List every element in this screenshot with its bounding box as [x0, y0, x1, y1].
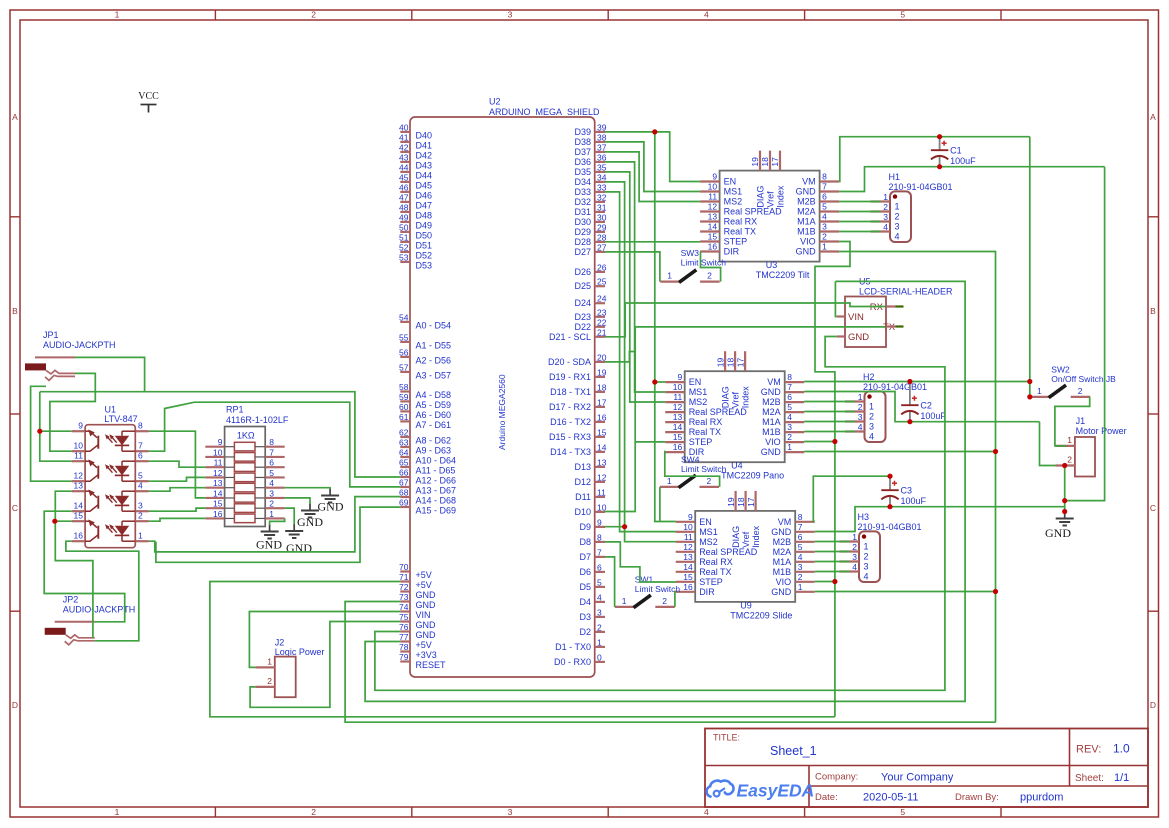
- svg-text:29: 29: [597, 222, 607, 232]
- svg-text:Arduino MEGA2560: Arduino MEGA2560: [497, 374, 507, 450]
- wire RP1 1 to GND c: [270, 518, 285, 525]
- svg-text:MS2: MS2: [699, 537, 718, 547]
- svg-text:7: 7: [269, 447, 274, 457]
- svg-text:3: 3: [269, 488, 274, 498]
- svg-text:D6: D6: [579, 567, 591, 577]
- svg-text:2: 2: [869, 412, 874, 422]
- wire GND75 to J2 pin2: [250, 622, 400, 708]
- svg-text:4: 4: [597, 592, 602, 602]
- wire U4 DIR to SW4 pin2: [665, 452, 720, 487]
- svg-text:62: 62: [399, 428, 409, 438]
- wire GND bus bottom: [345, 602, 995, 723]
- svg-text:23: 23: [597, 307, 607, 317]
- svg-text:1: 1: [787, 442, 792, 452]
- wire U9 M2B to H3: [815, 541, 850, 543]
- svg-text:19: 19: [726, 497, 736, 507]
- svg-text:11: 11: [214, 458, 223, 468]
- svg-text:SW1: SW1: [635, 575, 654, 585]
- wire U9 M1B to H3: [815, 571, 850, 573]
- svg-text:D13: D13: [574, 462, 591, 472]
- svg-text:12: 12: [683, 542, 693, 552]
- svg-text:12: 12: [708, 202, 718, 212]
- svg-text:75: 75: [399, 612, 409, 622]
- svg-text:2: 2: [597, 622, 602, 632]
- svg-text:11: 11: [684, 532, 693, 542]
- svg-text:1: 1: [869, 402, 874, 412]
- svg-text:RESET: RESET: [416, 660, 447, 670]
- svg-text:13: 13: [597, 457, 607, 467]
- wire U9 GND1 to bus: [815, 591, 996, 593]
- svg-text:D27: D27: [574, 247, 591, 257]
- svg-text:33: 33: [597, 182, 607, 192]
- svg-text:A: A: [1150, 112, 1156, 122]
- svg-text:D35: D35: [574, 167, 591, 177]
- svg-text:+3V3: +3V3: [416, 650, 437, 660]
- svg-text:D51: D51: [416, 240, 433, 250]
- svg-text:7: 7: [787, 382, 792, 392]
- wire U3 GND1 to GND bus: [839, 252, 995, 723]
- svg-text:D31: D31: [574, 207, 591, 217]
- svg-text:74: 74: [399, 602, 409, 612]
- wire D7 to SW1 pin1: [605, 557, 615, 607]
- svg-text:Limit Switch: Limit Switch: [635, 584, 681, 594]
- svg-text:Real RX: Real RX: [699, 557, 733, 567]
- svg-text:EN: EN: [699, 517, 712, 527]
- svg-text:D53: D53: [416, 260, 433, 270]
- IC U4 TMC2209 Pano: [685, 371, 785, 462]
- svg-text:6: 6: [822, 192, 827, 202]
- svg-text:D47: D47: [416, 200, 433, 210]
- svg-text:3: 3: [822, 222, 827, 232]
- svg-text:VIN: VIN: [416, 610, 431, 620]
- svg-text:1: 1: [269, 509, 274, 519]
- svg-text:DIR: DIR: [699, 587, 715, 597]
- svg-text:12: 12: [74, 471, 84, 481]
- svg-text:2: 2: [864, 552, 869, 562]
- svg-text:VIO: VIO: [800, 237, 816, 247]
- svg-text:DIAG: DIAG: [731, 526, 741, 548]
- svg-text:C3: C3: [901, 486, 913, 496]
- svg-text:8: 8: [138, 421, 143, 431]
- wire VIO bus bottom to +5V pin71: [210, 582, 835, 717]
- svg-text:2: 2: [852, 542, 857, 552]
- wire D8 jog to U9 STEP: [605, 542, 676, 582]
- svg-text:8: 8: [269, 437, 274, 447]
- svg-text:40: 40: [399, 122, 409, 132]
- svg-text:AUDIO-JACKPTH: AUDIO-JACKPTH: [43, 340, 116, 350]
- svg-text:U1: U1: [105, 405, 117, 415]
- svg-text:H2: H2: [863, 372, 875, 382]
- svg-text:3: 3: [597, 607, 602, 617]
- svg-text:D16 - TX2: D16 - TX2: [550, 417, 591, 427]
- wire U9 M1A to H3: [815, 561, 850, 563]
- svg-text:D43: D43: [416, 160, 433, 170]
- svg-text:D22: D22: [574, 322, 591, 332]
- svg-text:3: 3: [138, 501, 143, 511]
- svg-text:8: 8: [597, 532, 602, 542]
- wire U4 M2A to H2: [804, 411, 855, 413]
- svg-text:1: 1: [895, 202, 900, 212]
- svg-text:A10 - D64: A10 - D64: [416, 456, 457, 466]
- svg-text:46: 46: [399, 182, 409, 192]
- svg-text:15: 15: [597, 427, 607, 437]
- svg-text:M2A: M2A: [762, 407, 781, 417]
- svg-text:11: 11: [673, 392, 682, 402]
- svg-text:4: 4: [798, 552, 803, 562]
- wire VIN74 to J2 pin1: [249, 612, 400, 668]
- svg-text:2: 2: [798, 572, 803, 582]
- svg-text:3: 3: [858, 412, 863, 422]
- svg-text:D15 - RX3: D15 - RX3: [549, 432, 591, 442]
- svg-text:D: D: [1150, 700, 1156, 710]
- svg-text:10: 10: [708, 182, 718, 192]
- svg-text:D20 - SDA: D20 - SDA: [548, 357, 591, 367]
- wire U9 VIO to bus: [815, 581, 835, 583]
- svg-text:D42: D42: [416, 150, 433, 160]
- svg-text:21: 21: [597, 327, 607, 337]
- svg-text:VCC: VCC: [138, 91, 159, 102]
- svg-text:43: 43: [399, 152, 409, 162]
- svg-text:+5V: +5V: [416, 570, 432, 580]
- svg-text:4: 4: [704, 10, 709, 20]
- wire U4 M2B to H2: [804, 401, 855, 403]
- svg-text:D49: D49: [416, 220, 433, 230]
- svg-text:16: 16: [213, 509, 223, 519]
- capacitor C3 100uF: [889, 476, 891, 490]
- svg-text:D29: D29: [574, 227, 591, 237]
- svg-text:J2: J2: [275, 637, 285, 647]
- svg-text:A11 - D65: A11 - D65: [416, 466, 456, 476]
- wire C2 bottom to J1 pin2: [1040, 422, 1056, 466]
- wire U4 GND1 to GND bus: [804, 451, 995, 453]
- wire J1 pin2 junction down: [1064, 466, 1066, 512]
- svg-text:18: 18: [760, 157, 770, 167]
- svg-text:1: 1: [115, 807, 120, 817]
- title block: [705, 729, 1148, 808]
- wire U1 pin16 to JP2 ring: [66, 541, 139, 641]
- svg-text:U3: U3: [766, 260, 778, 270]
- svg-text:GND: GND: [416, 600, 437, 610]
- svg-text:2: 2: [707, 271, 712, 281]
- svg-text:24: 24: [597, 294, 607, 304]
- wire U1 pin1 to A14: [149, 497, 401, 552]
- svg-text:57: 57: [399, 362, 409, 372]
- svg-text:U9: U9: [740, 601, 752, 611]
- svg-text:70: 70: [399, 562, 409, 572]
- svg-text:3: 3: [508, 10, 513, 20]
- wire U1 pin4 to RP1 13: [149, 488, 206, 492]
- svg-text:34: 34: [597, 172, 607, 182]
- svg-text:A0 - D54: A0 - D54: [416, 320, 452, 330]
- svg-text:J1: J1: [1076, 416, 1086, 426]
- svg-text:A13 - D67: A13 - D67: [416, 486, 457, 496]
- svg-text:RP1: RP1: [226, 405, 244, 415]
- svg-text:11: 11: [708, 192, 717, 202]
- svg-text:ARDUINO_MEGA_SHIELD: ARDUINO_MEGA_SHIELD: [489, 107, 600, 117]
- svg-text:1/1: 1/1: [1114, 772, 1129, 784]
- svg-text:D18 - TX1: D18 - TX1: [550, 387, 591, 397]
- svg-text:DIR: DIR: [724, 247, 740, 257]
- wire JP1 net down to U1: [40, 392, 72, 462]
- svg-text:16: 16: [708, 242, 718, 252]
- svg-text:M1B: M1B: [773, 567, 792, 577]
- svg-text:39: 39: [597, 122, 607, 132]
- wire D36 to U4 MS1: [605, 162, 665, 392]
- svg-text:18: 18: [736, 497, 746, 507]
- svg-text:A5 - D59: A5 - D59: [416, 400, 452, 410]
- svg-text:VM: VM: [778, 517, 792, 527]
- wire TX bus to U4 STEP: [635, 441, 665, 443]
- svg-text:6: 6: [597, 562, 602, 572]
- svg-text:72: 72: [399, 582, 409, 592]
- svg-text:Logic Power: Logic Power: [275, 647, 325, 657]
- svg-text:27: 27: [597, 242, 607, 252]
- svg-text:49: 49: [399, 212, 409, 222]
- svg-text:67: 67: [399, 478, 409, 488]
- svg-text:2: 2: [787, 432, 792, 442]
- svg-text:Sheet_1: Sheet_1: [770, 744, 817, 758]
- wire U1 pin2 to RP1 16: [149, 518, 206, 521]
- svg-text:TMC2209 Pano: TMC2209 Pano: [721, 471, 784, 481]
- wire U1 pin9 branch: [40, 430, 72, 432]
- svg-text:EN: EN: [689, 377, 702, 387]
- svg-text:63: 63: [399, 438, 409, 448]
- wire C1 bottom rail down: [1065, 167, 1105, 501]
- svg-text:MS1: MS1: [699, 527, 718, 537]
- wire D39 to junction: [605, 132, 700, 182]
- svg-text:19: 19: [597, 367, 607, 377]
- svg-text:1: 1: [138, 531, 143, 541]
- svg-text:2: 2: [858, 402, 863, 412]
- svg-text:50: 50: [399, 222, 409, 232]
- svg-text:D11: D11: [575, 492, 591, 502]
- svg-text:ppurdom: ppurdom: [1020, 792, 1063, 804]
- svg-text:Drawn By:: Drawn By:: [955, 792, 999, 803]
- svg-text:Vref: Vref: [741, 531, 751, 548]
- svg-text:3: 3: [883, 212, 888, 222]
- svg-text:42: 42: [399, 142, 409, 152]
- svg-text:77: 77: [399, 632, 409, 642]
- svg-text:6: 6: [138, 451, 143, 461]
- svg-text:64: 64: [399, 448, 409, 458]
- svg-text:2020-05-11: 2020-05-11: [863, 792, 918, 804]
- svg-text:7: 7: [798, 522, 803, 532]
- svg-text:On/Off Switch JB: On/Off Switch JB: [1051, 374, 1116, 384]
- wire U3 M1A to H1: [839, 221, 880, 223]
- svg-text:2: 2: [1078, 386, 1083, 396]
- svg-text:GND: GND: [416, 620, 437, 630]
- svg-text:1: 1: [597, 637, 602, 647]
- svg-text:3: 3: [895, 222, 900, 232]
- svg-text:2: 2: [269, 499, 274, 509]
- svg-text:1: 1: [822, 242, 827, 252]
- svg-text:16: 16: [74, 531, 84, 541]
- svg-text:60: 60: [399, 402, 409, 412]
- svg-text:REV:: REV:: [1076, 744, 1101, 756]
- wire U5 VIN from +5V rail: [835, 281, 837, 316]
- svg-text:28: 28: [597, 232, 607, 242]
- svg-text:13: 13: [213, 478, 223, 488]
- svg-text:D36: D36: [574, 157, 591, 167]
- svg-text:1: 1: [667, 476, 672, 486]
- svg-text:M1B: M1B: [762, 427, 781, 437]
- svg-text:11: 11: [74, 451, 83, 461]
- svg-text:9: 9: [78, 421, 83, 431]
- IC U9 TMC2209 Slide: [695, 511, 795, 602]
- wire JP1 ring to U1 pin12: [31, 386, 72, 481]
- svg-text:D4: D4: [579, 597, 591, 607]
- svg-text:Real TX: Real TX: [689, 427, 721, 437]
- svg-text:4: 4: [787, 412, 792, 422]
- svg-text:Company:: Company:: [815, 772, 858, 783]
- svg-text:SW2: SW2: [1051, 365, 1070, 375]
- svg-text:0: 0: [597, 652, 602, 662]
- svg-text:D26: D26: [574, 267, 591, 277]
- capacitor C2 100uF: [909, 382, 911, 406]
- svg-text:TITLE:: TITLE:: [713, 733, 740, 743]
- svg-text:10: 10: [683, 522, 693, 532]
- svg-text:JP2: JP2: [63, 594, 79, 604]
- svg-text:GND: GND: [416, 630, 437, 640]
- svg-text:17: 17: [597, 397, 607, 407]
- svg-text:MS2: MS2: [724, 197, 743, 207]
- svg-text:37: 37: [597, 142, 607, 152]
- wire D37 to U3 MS2: [605, 152, 700, 202]
- svg-text:D7: D7: [579, 552, 591, 562]
- svg-text:C1: C1: [950, 146, 962, 156]
- svg-text:1: 1: [1037, 386, 1042, 396]
- svg-text:68: 68: [399, 488, 409, 498]
- svg-text:4: 4: [269, 478, 274, 488]
- svg-text:STEP: STEP: [724, 237, 748, 247]
- svg-text:TMC2209 Tilt: TMC2209 Tilt: [756, 270, 810, 280]
- svg-text:18: 18: [597, 382, 607, 392]
- svg-text:2: 2: [895, 212, 900, 222]
- svg-text:100uF: 100uF: [901, 496, 927, 506]
- svg-text:9: 9: [712, 172, 717, 182]
- svg-text:7: 7: [597, 547, 602, 557]
- wire C3 bottom to GND: [890, 506, 1065, 508]
- svg-text:2: 2: [138, 511, 143, 521]
- svg-text:35: 35: [597, 162, 607, 172]
- svg-text:6: 6: [787, 392, 792, 402]
- svg-text:65: 65: [399, 458, 409, 468]
- wire U3 VM up to C1 top rail: [839, 137, 1030, 182]
- svg-text:SW4: SW4: [681, 455, 700, 465]
- svg-text:3: 3: [508, 807, 513, 817]
- svg-text:2: 2: [707, 476, 712, 486]
- svg-text:Index: Index: [741, 386, 751, 409]
- svg-text:5: 5: [138, 471, 143, 481]
- svg-text:66: 66: [399, 468, 409, 478]
- svg-text:Real RX: Real RX: [724, 217, 758, 227]
- svg-text:LCD-SERIAL-HEADER: LCD-SERIAL-HEADER: [859, 287, 953, 297]
- svg-text:1: 1: [667, 271, 672, 281]
- svg-text:A12 - D66: A12 - D66: [416, 476, 457, 486]
- svg-text:17: 17: [770, 157, 780, 167]
- svg-text:12: 12: [673, 402, 683, 412]
- wire D20 SDA jog to TX bus: [605, 352, 635, 362]
- wire SW2 pin2 to J1 pin1: [1055, 397, 1090, 446]
- svg-text:2: 2: [883, 202, 888, 212]
- svg-text:1: 1: [798, 582, 803, 592]
- wire U3 M2A to H1: [839, 211, 880, 213]
- wire JP1 net riser to A12: [145, 392, 401, 477]
- svg-text:B: B: [12, 306, 18, 316]
- svg-text:3: 3: [864, 562, 869, 572]
- wire EN bus vertical: [655, 132, 676, 522]
- wire D34 to U9 MS2: [605, 182, 676, 542]
- wire U4 M1B to H2: [804, 431, 855, 433]
- svg-text:4: 4: [138, 481, 143, 491]
- svg-text:STEP: STEP: [699, 577, 723, 587]
- svg-text:19: 19: [750, 157, 760, 167]
- svg-text:4: 4: [895, 232, 900, 242]
- svg-text:2: 2: [1067, 455, 1072, 465]
- svg-text:5: 5: [597, 577, 602, 587]
- svg-text:D1 - TX0: D1 - TX0: [555, 642, 591, 652]
- svg-text:5: 5: [822, 202, 827, 212]
- svg-text:Limit Switch: Limit Switch: [681, 258, 727, 268]
- svg-text:15: 15: [708, 232, 718, 242]
- svg-text:5: 5: [900, 10, 905, 20]
- svg-text:EN: EN: [724, 177, 737, 187]
- wire U1 pin15 branch: [55, 520, 72, 522]
- svg-text:5: 5: [900, 807, 905, 817]
- svg-text:13: 13: [708, 212, 718, 222]
- svg-text:1KΩ: 1KΩ: [237, 431, 255, 441]
- svg-text:D8: D8: [579, 537, 591, 547]
- svg-text:2: 2: [267, 676, 272, 686]
- svg-text:A: A: [12, 112, 18, 122]
- svg-text:D9: D9: [579, 522, 591, 532]
- svg-text:Index: Index: [776, 185, 786, 208]
- svg-text:MS1: MS1: [689, 387, 708, 397]
- svg-text:4: 4: [852, 562, 857, 572]
- svg-text:78: 78: [399, 642, 409, 652]
- svg-text:1: 1: [1067, 435, 1072, 445]
- svg-text:D33: D33: [574, 187, 591, 197]
- wire U5 GND net: [375, 337, 945, 691]
- svg-text:7: 7: [822, 182, 827, 192]
- svg-text:2: 2: [311, 10, 316, 20]
- svg-text:D0 - RX0: D0 - RX0: [554, 657, 591, 667]
- svg-text:GND: GND: [761, 447, 782, 457]
- ground RP1 d: [293, 524, 295, 531]
- svg-text:16: 16: [597, 412, 607, 422]
- wire U1 pin6 to RP1 11: [149, 461, 206, 467]
- svg-text:D38: D38: [574, 137, 591, 147]
- wire U1 pin14 to JP2 sleeve: [44, 511, 125, 622]
- svg-text:Motor Power: Motor Power: [1076, 426, 1127, 436]
- wire U3 M2B to H1: [839, 201, 880, 203]
- svg-text:47: 47: [399, 192, 409, 202]
- svg-text:Real TX: Real TX: [724, 227, 756, 237]
- svg-text:1: 1: [622, 596, 627, 606]
- svg-text:VM: VM: [767, 377, 781, 387]
- svg-text:5: 5: [269, 468, 274, 478]
- svg-text:79: 79: [399, 652, 409, 662]
- svg-text:51: 51: [399, 232, 409, 242]
- svg-text:61: 61: [399, 412, 409, 422]
- svg-text:D12: D12: [574, 477, 591, 487]
- wire U1 pin7 riser to A13: [149, 402, 401, 487]
- svg-text:M2B: M2B: [773, 537, 792, 547]
- svg-text:53: 53: [399, 252, 409, 262]
- svg-text:71: 71: [399, 572, 409, 582]
- wire U9 M2A to H3: [815, 551, 850, 553]
- svg-text:13: 13: [673, 412, 683, 422]
